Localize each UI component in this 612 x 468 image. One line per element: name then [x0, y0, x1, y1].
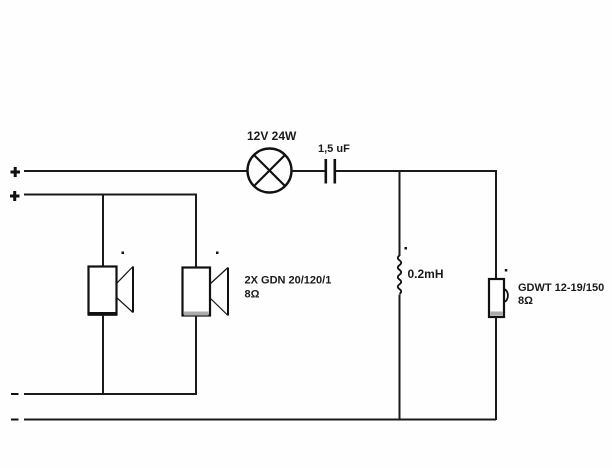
polarity dot inductor: [405, 247, 408, 250]
minus terminal 2: [11, 419, 19, 421]
wire down to woofer 1: [102, 195, 104, 267]
polarity dot woofer 2: [216, 252, 219, 255]
polarity dot tweeter: [505, 269, 508, 272]
plus terminal 2: [10, 191, 20, 201]
minus terminal 1: [11, 393, 19, 395]
wire lamp to capacitor: [292, 170, 326, 172]
wire second + rail: [24, 194, 197, 196]
wire right corner down to tweeter: [495, 170, 497, 279]
woofer 1 GDN 20/120/1: [88, 267, 133, 316]
bottom rail woofers: [24, 393, 197, 395]
svg-text:8Ω: 8Ω: [518, 295, 533, 307]
wire woofer 1 to bottom rail: [102, 315, 104, 394]
bottom rail tweeter/inductor: [24, 419, 496, 421]
lamp U1 12V 24W: [248, 149, 292, 193]
svg-text:8Ω: 8Ω: [245, 289, 260, 301]
wire node to inductor: [399, 171, 401, 256]
inductor L1 0.2mH: [398, 256, 401, 294]
polarity dot woofer 1: [122, 252, 125, 255]
svg-text:GDWT 12-19/150: GDWT 12-19/150: [518, 282, 604, 294]
wire tweeter to bottom: [495, 317, 497, 420]
wire inductor to bottom: [399, 295, 401, 421]
capacitor C1 1,5 uF: [326, 159, 335, 184]
svg-text:2X GDN 20/120/1: 2X GDN 20/120/1: [245, 275, 332, 287]
wire down to woofer 2: [195, 195, 197, 268]
wire woofer 2 to bottom rail: [195, 316, 197, 394]
wire top from + to lamp: [24, 170, 248, 172]
wire capacitor to right corner: [336, 170, 497, 172]
svg-text:0.2mH: 0.2mH: [408, 267, 444, 281]
woofer 2 GDN 20/120/1: [183, 268, 229, 316]
svg-text:12V 24W: 12V 24W: [247, 129, 297, 143]
plus terminal 1: [11, 167, 21, 177]
svg-text:1,5 uF: 1,5 uF: [318, 143, 350, 155]
tweeter GDWT 12-19/150: [489, 279, 508, 317]
